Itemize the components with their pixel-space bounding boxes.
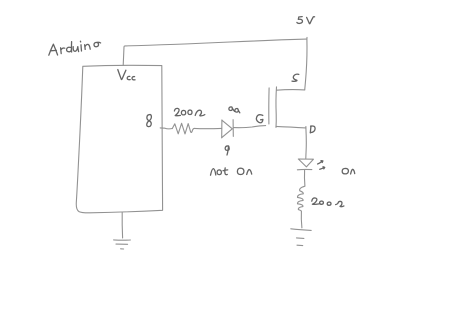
led D2 xyxy=(297,159,313,170)
resistor R2 xyxy=(297,186,304,211)
label not On xyxy=(211,168,252,175)
no-light squiggle below D1 xyxy=(225,146,229,155)
wire 5V corner down to source xyxy=(305,37,307,90)
label 200 ohm R2 xyxy=(312,198,344,207)
ground GND2 xyxy=(291,229,311,246)
label pin 8 xyxy=(147,115,152,127)
wire drain down to LED D2 xyxy=(305,127,308,159)
wire D2 to R2 xyxy=(303,170,305,186)
no-light squiggles D1 xyxy=(229,107,240,113)
led D1 xyxy=(222,120,234,138)
label On (right) xyxy=(342,168,355,174)
transistor Q1 source lead xyxy=(277,89,305,92)
label S xyxy=(292,74,299,81)
ground GND1 xyxy=(114,240,131,249)
wire Vcc to 5V rail xyxy=(123,39,306,65)
label 200 ohm R1 xyxy=(174,108,204,116)
transistor Q1 drain lead xyxy=(276,126,306,128)
label D xyxy=(310,126,315,133)
light arrows D2 xyxy=(318,161,325,170)
label 5V xyxy=(297,17,315,24)
wire pin 8 to R1 xyxy=(160,127,172,130)
wire box to ground xyxy=(121,213,123,238)
wire R1 to D1 xyxy=(194,127,221,129)
transistor Q1 gate bar xyxy=(268,88,270,124)
label Arduino xyxy=(49,41,101,55)
Arduino box U1 xyxy=(76,65,162,212)
label Vcc xyxy=(118,70,135,80)
wire R2 to ground xyxy=(300,211,303,228)
transistor Q1 channel bar xyxy=(275,87,278,128)
label G xyxy=(256,115,263,123)
wire D1 to gate xyxy=(233,126,265,128)
resistor R1 xyxy=(172,123,194,134)
